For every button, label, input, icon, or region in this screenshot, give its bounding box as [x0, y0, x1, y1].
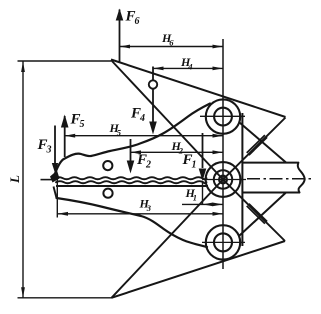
- svg-text:5: 5: [80, 119, 85, 130]
- svg-text:3: 3: [46, 145, 52, 156]
- svg-text:6: 6: [135, 16, 140, 27]
- svg-text:5: 5: [117, 128, 122, 138]
- svg-text:1: 1: [193, 193, 197, 203]
- svg-text:L: L: [7, 175, 22, 184]
- svg-text:3: 3: [146, 203, 152, 213]
- svg-text:4: 4: [139, 113, 145, 124]
- svg-text:1: 1: [192, 160, 197, 171]
- svg-text:2: 2: [145, 160, 151, 171]
- svg-text:4: 4: [187, 62, 192, 72]
- svg-text:6: 6: [169, 38, 174, 48]
